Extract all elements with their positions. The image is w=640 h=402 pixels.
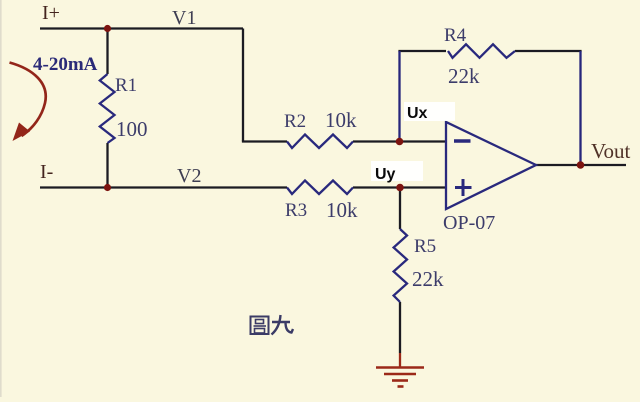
svg-text:100: 100 — [116, 117, 148, 141]
svg-text:R3: R3 — [285, 200, 307, 221]
wire: I+ top rail — [40, 27, 243, 29]
op-amp inverting input minus sign — [454, 139, 471, 142]
node junction dot I+ / R1 — [104, 25, 111, 32]
svg-text:Ux: Ux — [407, 105, 428, 122]
node junction dot Uy — [396, 184, 404, 192]
wire: R1 top stub — [106, 29, 108, 75]
resistor R4 zigzag — [448, 44, 515, 58]
resistor R3 zigzag — [287, 181, 353, 195]
wire: V1 vertical drop — [242, 29, 244, 142]
svg-text:4-20mA: 4-20mA — [33, 54, 98, 75]
svg-text:R2: R2 — [284, 111, 306, 132]
svg-text:I-: I- — [40, 161, 53, 183]
node junction dot I- / R1 — [104, 184, 111, 191]
svg-text:Vout: Vout — [591, 139, 630, 163]
node Ux white box — [404, 102, 455, 121]
svg-text:R4: R4 — [444, 25, 467, 46]
faint left edge artifact — [0, 0, 2, 397]
caption glyph 九 left sweeping stroke — [272, 315, 281, 335]
figure caption 圖九 (drawn glyphs) — [251, 315, 294, 335]
current loop arrowhead — [13, 123, 31, 142]
caption glyph 圖 outer box — [251, 317, 269, 335]
wire: feedback right vertical — [579, 51, 581, 165]
svg-text:R5: R5 — [414, 236, 436, 257]
svg-text:10k: 10k — [325, 108, 357, 132]
op-amp non-inverting input plus sign — [455, 179, 472, 196]
current loop arc arrow — [10, 63, 46, 137]
wire: R5 top stub — [399, 188, 401, 230]
svg-text:V1: V1 — [172, 7, 196, 29]
wire: op-amp output — [536, 164, 626, 166]
wire: R1 bottom stub — [106, 143, 108, 188]
wire: R3 right segment to non-inverting input — [353, 186, 446, 188]
resistor R2 zigzag — [287, 135, 353, 149]
node Uy white box — [371, 161, 423, 181]
svg-text:OP-07: OP-07 — [443, 212, 495, 234]
svg-text:22k: 22k — [412, 267, 444, 291]
wire: feedback top left segment — [398, 50, 446, 52]
node junction dot Ux — [396, 138, 404, 146]
ground stem (red) — [399, 353, 401, 367]
node junction dot Vout — [577, 161, 585, 169]
svg-text:Uy: Uy — [375, 166, 396, 183]
wire: R2 left segment — [242, 140, 287, 142]
svg-text:V2: V2 — [177, 165, 201, 187]
wire: feedback top right segment — [515, 50, 582, 52]
svg-text:10k: 10k — [326, 198, 358, 222]
wire: I- bottom rail — [40, 186, 287, 188]
caption glyph 圖 lower box — [255, 329, 265, 334]
svg-text:R1: R1 — [115, 75, 137, 96]
caption glyph 圖 middle bar — [254, 325, 267, 327]
op-amp U1 triangle — [446, 122, 536, 209]
resistor R5 zigzag — [394, 229, 407, 302]
wire: R2 right segment to inverting input — [353, 140, 446, 142]
caption glyph 圖 inner top mouth — [256, 320, 264, 324]
resistor R1 zigzag — [100, 74, 115, 143]
svg-text:22k: 22k — [448, 64, 480, 88]
wire: feedback left vertical — [398, 51, 400, 142]
caption glyph 九 horizontal and hooked leg — [272, 322, 293, 333]
ground symbol — [376, 368, 424, 387]
wire: R5 bottom stub — [399, 302, 401, 353]
svg-text:I+: I+ — [42, 2, 60, 24]
